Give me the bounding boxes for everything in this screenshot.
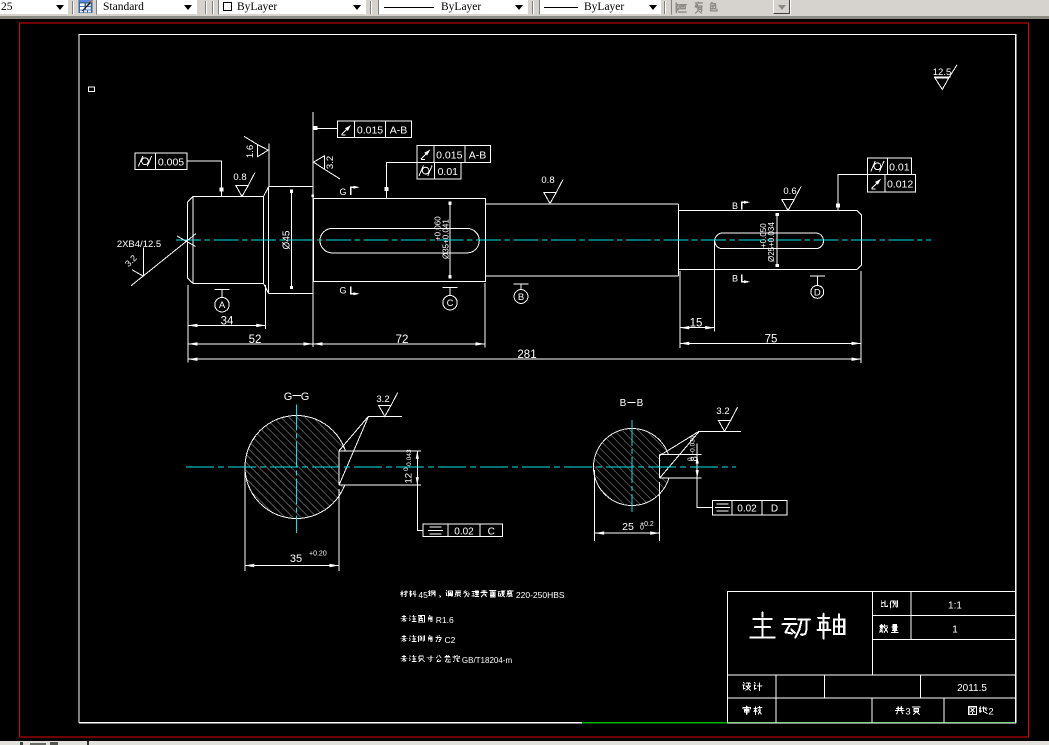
svg-text:0.8: 0.8 xyxy=(233,172,246,183)
B-B symmetry frame 0.02 D xyxy=(697,489,712,508)
svg-text:3.2: 3.2 xyxy=(376,394,389,405)
shaft section S3 (keyway section) xyxy=(314,199,486,282)
svg-text:0.01: 0.01 xyxy=(438,166,459,178)
B-B hatched circle xyxy=(594,428,671,506)
svg-text:1.6: 1.6 xyxy=(245,145,256,158)
svg-text:G: G xyxy=(339,187,346,197)
shaft section S4 xyxy=(485,199,487,282)
note line 3 xyxy=(401,635,407,642)
datum A xyxy=(215,288,230,290)
title cell texts xyxy=(881,601,887,607)
shaft section S1 outline xyxy=(193,197,264,284)
svg-text:0: 0 xyxy=(687,457,694,461)
datum B xyxy=(514,283,529,285)
svg-text:D: D xyxy=(771,504,778,515)
svg-text:G: G xyxy=(301,391,310,403)
svg-text:1:1: 1:1 xyxy=(948,601,962,612)
keyway slot 2 xyxy=(715,233,824,249)
dim 75 xyxy=(680,342,861,344)
B-B dim 25 +0.2/0 xyxy=(594,470,596,541)
G-G hatched circle xyxy=(245,415,348,519)
datum C xyxy=(443,286,458,288)
svg-text:2011.5: 2011.5 xyxy=(957,683,987,694)
svg-text:0.005: 0.005 xyxy=(158,157,184,169)
dim 72 xyxy=(313,343,485,345)
svg-text:75: 75 xyxy=(765,333,778,345)
svg-text:3.2: 3.2 xyxy=(716,406,729,417)
svg-text:45: 45 xyxy=(418,590,428,600)
svg-text:B: B xyxy=(732,274,738,284)
B-B roughness 3.2 leader xyxy=(660,431,742,455)
keyway slot 1 xyxy=(320,228,479,253)
keyway2 diameter dim line xyxy=(776,213,778,267)
svg-text:0.02: 0.02 xyxy=(454,526,474,537)
B-B keyway flat + notch lines xyxy=(659,455,661,479)
G-G dim 35 +0.20 xyxy=(244,471,246,571)
svg-text:C2: C2 xyxy=(445,635,456,645)
keyway1 diameter dim line xyxy=(449,202,451,279)
svg-text:2XB4/12.5: 2XB4/12.5 xyxy=(117,239,161,250)
frames F3 stacked: runout 0.015 A-B / cylindricity 0.01 xyxy=(417,146,491,163)
note line 2 xyxy=(401,615,407,622)
frame F1 cylindricity 0.005 xyxy=(135,153,187,170)
svg-text:+0.060: +0.060 xyxy=(434,216,443,241)
svg-text:0.6: 0.6 xyxy=(783,186,796,197)
G-G symmetry frame 0.02 C xyxy=(417,485,423,530)
datum D xyxy=(810,275,825,277)
green title strip bottom line xyxy=(582,722,1016,724)
G-G vertical centerline xyxy=(296,405,298,534)
svg-text:0: 0 xyxy=(640,525,644,532)
long horizontal centerline through sections xyxy=(186,466,736,468)
svg-text:C: C xyxy=(447,298,454,309)
shaft section S6 (right keyway section) xyxy=(679,210,858,212)
svg-text:A-B: A-B xyxy=(469,149,487,161)
svg-text:R1.6: R1.6 xyxy=(436,615,454,625)
svg-text:281: 281 xyxy=(517,349,536,361)
svg-text:0.02: 0.02 xyxy=(737,504,757,515)
svg-text:12: 12 xyxy=(404,473,415,484)
note line 4 xyxy=(401,655,407,662)
collar diameter dim 45 xyxy=(291,190,293,288)
svg-text:B: B xyxy=(732,201,738,211)
svg-text:B: B xyxy=(518,292,524,303)
dim 281 xyxy=(188,358,861,360)
svg-text:C: C xyxy=(488,526,495,537)
collar right edge + extension line up to frame2 and down to dims xyxy=(312,112,314,347)
svg-text:3.2: 3.2 xyxy=(325,156,336,169)
svg-text:1: 1 xyxy=(952,625,958,636)
svg-text:220-250HBS: 220-250HBS xyxy=(516,590,565,600)
shaft collar S2 outline xyxy=(264,187,269,294)
svg-text:G: G xyxy=(339,286,346,296)
svg-text:52: 52 xyxy=(249,334,262,346)
svg-text:0.012: 0.012 xyxy=(887,179,913,191)
svg-text:+0.050: +0.050 xyxy=(759,223,768,248)
B-B dim 8 0/-0.036 xyxy=(696,444,698,490)
main centerline xyxy=(176,239,931,241)
svg-text:0.01: 0.01 xyxy=(889,162,910,174)
grip square xyxy=(89,87,95,92)
svg-text:G: G xyxy=(284,391,293,403)
svg-text:3: 3 xyxy=(905,707,910,718)
svg-text:D: D xyxy=(814,287,821,298)
G-G keyway flat + notch lines xyxy=(338,451,340,485)
svg-text:15: 15 xyxy=(690,318,703,330)
dim 52 xyxy=(188,343,313,345)
svg-text:B: B xyxy=(620,398,627,409)
note line 1 xyxy=(401,591,408,597)
svg-text:2: 2 xyxy=(988,707,993,718)
toolbar xyxy=(0,0,1049,19)
dim 15 xyxy=(680,327,715,329)
svg-text:35: 35 xyxy=(290,553,302,565)
svg-text:0.8: 0.8 xyxy=(541,175,554,186)
frame F2 runout 0.015 A-B xyxy=(338,121,412,138)
title big text 主动轴 xyxy=(750,613,774,638)
svg-text:Ø35+0.041: Ø35+0.041 xyxy=(442,219,451,259)
svg-text:A: A xyxy=(219,300,226,311)
svg-text:+0.20: +0.20 xyxy=(309,551,327,558)
svg-text:B: B xyxy=(637,398,644,409)
svg-text:72: 72 xyxy=(396,334,409,346)
svg-text:34: 34 xyxy=(221,316,234,328)
G-G roughness 3.2 leader xyxy=(339,416,402,450)
svg-text:A-B: A-B xyxy=(390,125,408,137)
svg-text:0.015: 0.015 xyxy=(357,125,383,137)
svg-text:Ø25+0.034: Ø25+0.034 xyxy=(767,222,776,262)
G-G dim 12 0/-0.043 xyxy=(416,451,418,485)
svg-text:GB/T18204-m: GB/T18204-m xyxy=(462,656,513,665)
title block outline xyxy=(727,592,1015,724)
dim 34 xyxy=(188,324,266,326)
frames F4 stacked: cylindricity 0.01 / runout 0.012 xyxy=(867,158,911,175)
svg-text:0.015: 0.015 xyxy=(436,149,462,161)
step S4/S6 xyxy=(678,204,680,276)
svg-text:-0.043: -0.043 xyxy=(406,449,413,468)
B-B vertical centerline xyxy=(631,420,633,512)
extension lines xyxy=(187,285,189,363)
svg-text:25: 25 xyxy=(622,521,634,533)
